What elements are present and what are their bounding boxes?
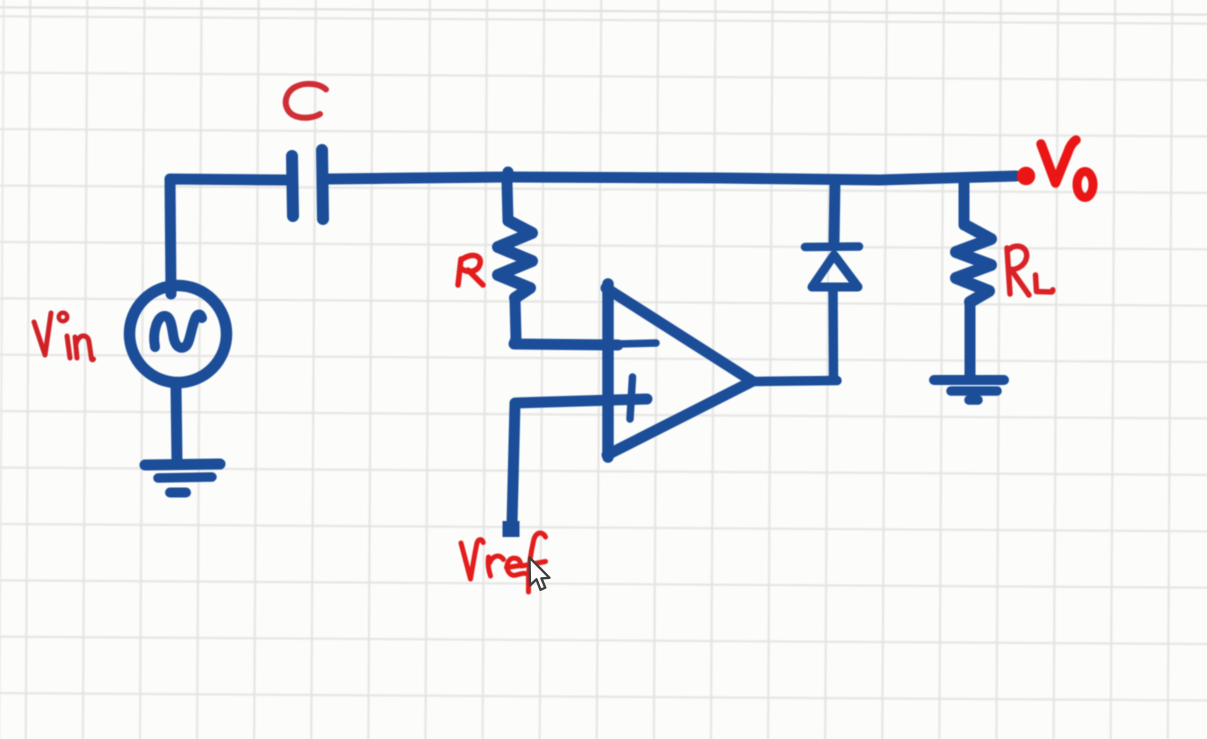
- wire: inverting input tail inside op-amp: [616, 343, 656, 344]
- sine source Vin circle: [130, 286, 227, 383]
- label Vo: [1041, 140, 1076, 183]
- wire: top rail down to resistor R: [507, 182, 508, 221]
- capacitor C right plate: [322, 150, 323, 219]
- wire: op-amp output to diode bottom: [752, 381, 837, 382]
- node junction at R top: [503, 167, 514, 178]
- diode D1 triangle: [812, 255, 858, 287]
- Vref terminal blob: [503, 521, 520, 537]
- label RL: [1007, 246, 1029, 295]
- op-amp plus input wire: [512, 399, 647, 524]
- capacitor C left plate: [292, 156, 293, 216]
- resistor RL zigzag: [956, 226, 991, 302]
- wire: diode bottom vertical: [828, 288, 838, 380]
- ground under source: [145, 464, 220, 465]
- label C: [286, 84, 326, 118]
- op-amp U1 triangle: [602, 284, 614, 457]
- wire: capacitor to Vo node (top rail): [328, 176, 1016, 180]
- wire: RL bottom to ground: [965, 303, 976, 377]
- plus sign stroke: [630, 377, 633, 419]
- resistor R zigzag: [498, 221, 532, 298]
- wire: source top to capacitor left: [170, 179, 288, 294]
- wire: rail down to load resistor: [959, 180, 970, 225]
- ground under RL: [934, 375, 1004, 385]
- mouse cursor: [530, 558, 550, 590]
- wire: diode top to rail: [834, 181, 835, 242]
- wire: R bottom to op-amp inverting input: [514, 299, 618, 345]
- sine squiggle: [154, 315, 202, 348]
- label Vin: [34, 313, 51, 355]
- wire: source bottom to ground: [176, 388, 177, 462]
- diode D1 cathode bar: [805, 242, 859, 251]
- label Vref: [461, 540, 483, 579]
- node Vo red dot: [1017, 167, 1035, 185]
- label R (at resistor R): [458, 255, 483, 285]
